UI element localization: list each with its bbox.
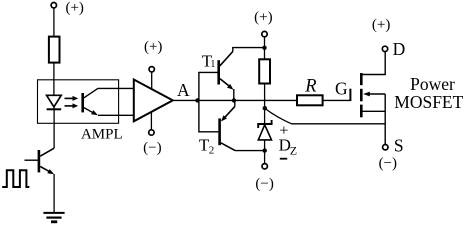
svg-text:1: 1 [210,59,215,70]
label Power MOSFET [394,74,463,112]
wire R1 to LED [53,63,55,96]
wire R to gate [323,99,351,101]
terminal S [383,145,388,150]
label T1 [202,52,216,71]
svg-text:(−): (−) [255,176,273,192]
MOSFET channel segments [360,73,363,117]
label AMPL [81,127,123,143]
label DZ [279,136,297,158]
ground [43,213,64,222]
wire zener to bottom rail [264,140,266,164]
node A junction dot [195,98,199,102]
label A [177,80,190,100]
label (+) mid-top [254,9,272,25]
svg-text:G: G [335,79,348,99]
terminal D [382,46,387,51]
svg-text:A: A [177,80,190,100]
transistor T1 (NPN upper) [219,52,234,90]
op-amp U1 (AMPL triangle) [134,80,173,122]
svg-text:(+): (+) [372,17,390,33]
label S [394,135,404,155]
light arrow 1 [65,96,79,101]
light arrow 2 [65,103,79,108]
junction dot gate node [263,106,267,110]
label (+) top-left [65,0,83,16]
label (-) mid [255,176,273,192]
wire mid supply to R2 [264,37,266,60]
label G [335,79,348,99]
MOSFET drain connection [363,52,386,75]
svg-text:(−): (−) [379,156,397,172]
MOSFET gate electrode [349,89,351,101]
svg-text:Z: Z [290,144,297,158]
amp +supply terminal [149,67,154,90]
square wave input symbol [2,170,29,187]
junction dot top rail [262,46,266,50]
resistor R (gate) [297,95,323,105]
transistor T2 (PNP lower) [220,107,236,151]
label R [304,76,316,96]
optocoupler box [38,80,119,124]
resistor R2 (vertical, mid) [259,59,270,83]
wire gate node to source line [265,108,385,123]
svg-text:(−): (−) [143,140,161,156]
label T2 [199,135,214,156]
svg-text:MOSFET: MOSFET [394,92,463,112]
wire amp output to node A [173,99,198,101]
label D [393,39,406,59]
label (+) amp [144,39,162,55]
LED D1 (optocoupler emitter) [47,95,62,109]
label - (zener) [280,158,287,160]
resistor R1 (vertical, top-left) [49,37,60,63]
wire mid rail A to R [198,99,298,101]
svg-text:AMPL: AMPL [81,127,123,143]
wire supply to R1 [53,8,55,37]
wire T1 emitter to mid rail [233,89,235,100]
svg-text:2: 2 [209,144,215,156]
transistor Q1 (input driver) [25,148,55,174]
terminal (-) mid [262,164,267,169]
wire T1 collector to top rail [233,48,265,52]
svg-text:(+): (+) [65,0,83,16]
junction dot emitters [232,98,236,102]
zener diode DZ [258,120,271,140]
wire LED to Q1 collector [53,107,55,148]
amp -supply terminal [149,112,154,135]
svg-text:D: D [393,39,406,59]
terminal (+) top-left [51,2,56,7]
junction dot bottom rail [263,148,267,152]
wire base rail [199,72,219,131]
wire T2 collector to bottom rail [235,150,265,152]
terminal (+) mid [262,31,267,36]
phototransistor [83,88,134,115]
label + (zener) [279,122,288,139]
wire R2 to zener [264,84,266,124]
label (-) amp [143,140,161,156]
wire T2 emitter to mid rail [234,100,236,106]
MOSFET source connection [363,94,386,144]
wire Q1 emitter to ground [53,174,55,213]
label (+) right [372,17,390,33]
svg-text:S: S [394,135,404,155]
svg-text:R: R [304,76,316,96]
MOSFET body arrow [363,92,385,97]
label (-) right [379,156,397,172]
svg-text:(+): (+) [144,39,162,55]
svg-text:(+): (+) [254,9,272,25]
